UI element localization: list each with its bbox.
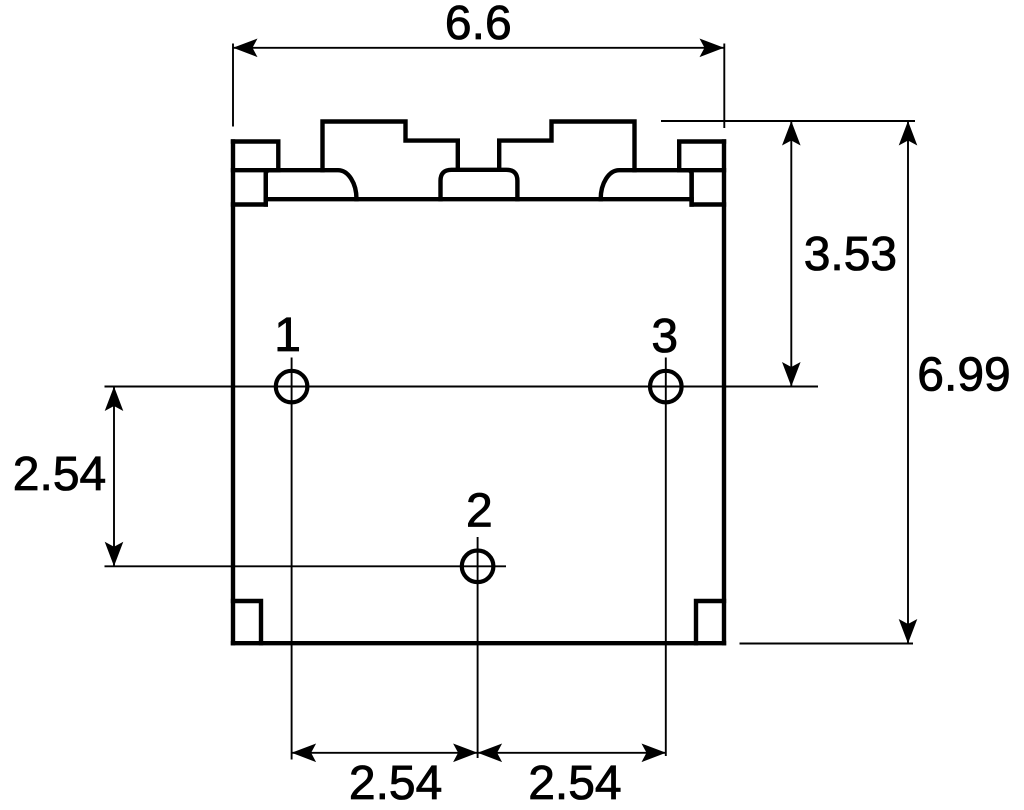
left bump [323, 122, 458, 171]
middle foot [441, 170, 518, 199]
right bump [499, 122, 634, 171]
svg-text:3: 3 [651, 310, 678, 363]
dimension line 6.6 [233, 47, 724, 49]
arrowhead 3.53 top [782, 121, 801, 146]
extension line 6.6 right [723, 44, 725, 129]
arrowhead 2.54 left top [105, 387, 124, 412]
arrowhead 2.54 bottom left of pin2 [453, 744, 478, 763]
pin 3 circle [650, 371, 682, 403]
left ear box [233, 142, 278, 171]
arrowhead 6.6 right [700, 39, 725, 58]
svg-text:2: 2 [466, 485, 493, 538]
arrowhead 2.54 left bottom [105, 542, 124, 567]
pin 3 vertical centerline [665, 358, 667, 757]
right foot [601, 170, 692, 204]
svg-text:2.54: 2.54 [13, 448, 106, 501]
pin 2 vertical centerline [477, 537, 479, 758]
left foot [266, 170, 357, 204]
pin 1 circle [276, 371, 308, 403]
pin 2 row centerline [105, 565, 507, 567]
body outline right edge [722, 142, 726, 644]
dimension line 2.54 bottom [292, 752, 666, 754]
svg-text:6.99: 6.99 [917, 348, 1010, 401]
extension line top of bumps [661, 120, 915, 122]
right ear inner box [692, 170, 724, 204]
svg-text:6.6: 6.6 [445, 0, 512, 50]
dimension line 6.99 [907, 121, 909, 644]
svg-text:2.54: 2.54 [349, 757, 442, 810]
dimension line 2.54 left [113, 387, 115, 567]
arrowhead 2.54 bottom right of pin2 [478, 744, 503, 763]
bottom left notch [233, 601, 261, 643]
dimension line 3.53 [790, 121, 792, 387]
right ear box [679, 142, 724, 171]
svg-text:3.53: 3.53 [804, 228, 897, 281]
svg-text:2.54: 2.54 [528, 757, 621, 810]
pin 1-3 row centerline [105, 386, 819, 388]
arrowhead 3.53 bottom [782, 362, 801, 387]
svg-text:1: 1 [274, 309, 301, 362]
arrowhead 6.6 left [233, 39, 258, 58]
extension line bottom right [740, 643, 914, 645]
bottom right notch [696, 601, 724, 643]
extension line 6.6 left [232, 44, 234, 127]
pin 2 circle [462, 551, 494, 583]
body top line [266, 197, 692, 201]
arrowhead 2.54 bottom at pin1 [292, 744, 317, 763]
pin 1 vertical centerline [291, 358, 293, 760]
body outline bottom edge [233, 641, 724, 645]
arrowhead 6.99 bottom [899, 619, 918, 644]
arrowhead 6.99 top [899, 121, 918, 146]
arrowhead 2.54 bottom at pin3 [642, 744, 667, 763]
body outline left edge [231, 142, 235, 644]
left ear inner box [233, 170, 266, 204]
